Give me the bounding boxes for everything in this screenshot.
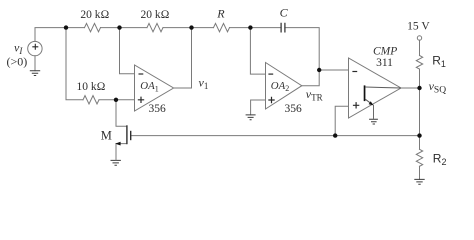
svg-text:20 kΩ: 20 kΩ: [141, 9, 170, 21]
node dot OA1 plus input: [114, 98, 118, 102]
op-amp OA1 triangle: [135, 65, 174, 111]
wire rail segment to capacitor: [230, 27, 282, 29]
ground below vI source: [30, 71, 40, 76]
op-amp OA2 triangle: [266, 63, 302, 110]
OA2 minus symbol: [268, 73, 273, 75]
node dot rail at OA2 inverting: [248, 25, 252, 29]
svg-text:20 kΩ: 20 kΩ: [80, 9, 109, 21]
resistor 10k: [83, 96, 99, 104]
resistor R2: [416, 149, 422, 166]
CMP minus symbol: [352, 71, 357, 73]
wire 15V terminal to R1: [419, 40, 421, 55]
wire rail segment to resistor R: [163, 27, 214, 29]
svg-text:356: 356: [149, 103, 167, 115]
svg-text:C: C: [280, 5, 289, 19]
wire 10k to OA1 plus input: [99, 99, 135, 101]
wire R2 to ground: [419, 166, 421, 179]
CMP output transistor base bar: [364, 85, 366, 101]
comparator CMP triangle: [349, 58, 402, 118]
wire vTR node to CMP inverting input: [319, 69, 348, 71]
svg-text:10 kΩ: 10 kΩ: [77, 81, 106, 93]
ground below CMP transistor: [369, 119, 378, 124]
MOSFET gate bar: [130, 131, 132, 140]
15V terminal circle: [417, 36, 421, 40]
OA2 plus symbol: [268, 97, 274, 103]
CMP emitter wire to ground: [373, 105, 375, 119]
node dot rail at OA1 output: [189, 25, 193, 29]
wire long gate bus from MOSFET to divider: [131, 135, 420, 137]
wire CMP output to vSQ node: [401, 87, 420, 89]
svg-text:vSQ: vSQ: [429, 79, 447, 96]
wire OA1 output riser to rail: [174, 28, 192, 88]
svg-text:M: M: [101, 129, 112, 143]
svg-text:OA1: OA1: [140, 80, 158, 93]
CMP transistor emitter arrowhead: [369, 101, 374, 105]
svg-text:(>0): (>0): [7, 55, 28, 69]
svg-text:R2: R2: [433, 151, 447, 167]
svg-text:R1: R1: [432, 53, 446, 69]
CMP transistor collector line: [365, 87, 401, 88]
wire source bottom to ground: [34, 56, 36, 71]
node dot vSQ: [417, 86, 421, 90]
node dot rail at OA1 feedback: [117, 25, 121, 29]
ground below MOSFET: [111, 160, 121, 165]
svg-text:311: 311: [376, 57, 393, 69]
MOSFET channel bar: [126, 125, 128, 144]
CMP transistor emitter line: [365, 99, 372, 105]
wire OA2 plus input to ground stub: [251, 100, 266, 115]
MOSFET source wire to ground: [116, 144, 127, 161]
svg-text:R: R: [216, 7, 225, 21]
wire OA2 output riser to vTR node: [302, 70, 319, 86]
wire top rail from source to first resistor: [35, 28, 85, 42]
ground below OA2 plus input: [246, 115, 256, 120]
svg-text:OA2: OA2: [271, 80, 289, 93]
wire CMP plus input from divider riser: [335, 106, 348, 135]
wire R1 to vSQ node to bus node: [419, 69, 421, 136]
wire bus node to R2: [419, 136, 421, 150]
svg-text:15 V: 15 V: [407, 20, 430, 32]
MOSFET source arrowhead: [115, 142, 120, 146]
resistor 20k (second): [147, 23, 163, 31]
svg-text:v1: v1: [199, 76, 209, 92]
MOSFET drain wire from OA1 plus node: [116, 100, 127, 127]
wire feedback drop to OA1 inverting input: [120, 28, 135, 74]
wire drop to OA2 inverting input: [250, 28, 265, 75]
CMP plus symbol: [353, 102, 359, 108]
node dot vTR: [317, 68, 321, 72]
resistor R: [214, 23, 230, 31]
svg-text:vTR: vTR: [306, 87, 323, 103]
voltage source vI circle: [28, 41, 42, 55]
resistor 20k (first): [85, 23, 101, 31]
OA1 plus symbol: [138, 97, 144, 103]
node dot bus at divider column: [417, 133, 421, 137]
node dot rail at source column: [64, 25, 68, 29]
OA1 minus symbol: [139, 73, 144, 75]
ground below R2: [414, 179, 424, 184]
wire drop from source node to 10k row: [66, 28, 83, 100]
wire rail segment node A to second resistor: [101, 27, 148, 29]
capacitor C plates: [281, 23, 285, 33]
svg-text:CMP: CMP: [373, 46, 397, 58]
node dot bus at CMP plus riser: [333, 133, 337, 137]
vI source plus sign: [32, 44, 38, 50]
resistor R1: [416, 56, 422, 70]
MOSFET M: [116, 100, 127, 160]
wire rail segment capacitor to corner down to CMP minus node: [285, 28, 319, 70]
svg-text:356: 356: [285, 103, 303, 115]
